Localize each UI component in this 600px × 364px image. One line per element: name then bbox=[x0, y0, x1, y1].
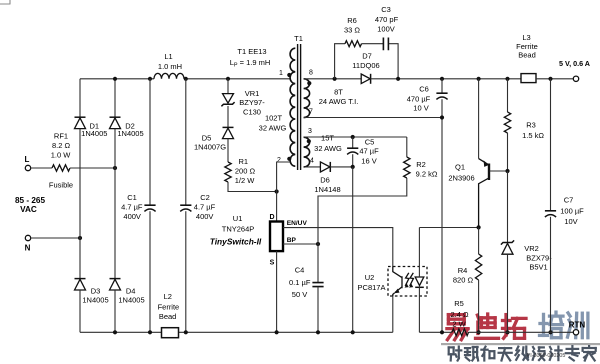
svg-text:4.7 µF: 4.7 µF bbox=[121, 203, 143, 212]
watermark logo char 2 (red) bbox=[476, 314, 499, 338]
wire VR1 to D5 bbox=[227, 106, 229, 127]
junction bottom rail / D4 bbox=[113, 330, 117, 334]
wire C5 lower stub bbox=[352, 154, 354, 167]
wire D7 to output rail bbox=[371, 78, 521, 80]
svg-text:3: 3 bbox=[308, 128, 312, 135]
svg-text:100V: 100V bbox=[377, 25, 395, 34]
junction bottom rail / U1 source bbox=[275, 330, 279, 334]
svg-text:2: 2 bbox=[277, 157, 281, 164]
junction RTN rail / C6 bbox=[440, 330, 444, 334]
wire C6 to RTN rail bbox=[441, 99, 443, 332]
wire top rail (bridge to transformer) bbox=[80, 78, 290, 80]
IC U1 TNY264P box bbox=[270, 222, 283, 252]
ferrite bead L3 bbox=[521, 74, 536, 83]
junction C6 top rail bbox=[440, 77, 444, 81]
wire R1 to drain node bbox=[228, 182, 277, 192]
watermark slogan char 2 (gray) bbox=[465, 347, 478, 361]
capacitor C7 100uF 10V bbox=[545, 210, 556, 212]
figure corner mark (top-left) bbox=[0, 0, 11, 4]
svg-text:R3: R3 bbox=[526, 120, 536, 129]
wire Q1 emitter bbox=[478, 79, 480, 159]
capacitor C3 470pF bbox=[383, 38, 388, 51]
diode D1 1N4005 bbox=[75, 116, 86, 118]
junction bottom rail / C1 bbox=[148, 330, 152, 334]
wire N terminal to bridge bbox=[31, 237, 80, 239]
resistor R2 9.2k with return to BP bbox=[406, 137, 408, 157]
wire LED cathode to RTN rail bbox=[418, 287, 420, 332]
svg-text:C1: C1 bbox=[127, 193, 137, 202]
wire base node to VR2 bbox=[507, 171, 509, 242]
svg-text:16 V: 16 V bbox=[361, 156, 376, 165]
wire C2 lower bbox=[185, 211, 187, 332]
svg-text:PI-3059-060205: PI-3059-060205 bbox=[527, 353, 566, 359]
junction top rail / D2 bbox=[113, 77, 117, 81]
svg-text:S: S bbox=[270, 260, 275, 267]
svg-text:BP: BP bbox=[287, 237, 297, 244]
zener VR2 BZX79-B5V1 bbox=[501, 240, 514, 244]
junction output rail / R3 bbox=[505, 77, 509, 81]
watermark slogan char 5 (gray) bbox=[515, 347, 528, 360]
inductor L1 bbox=[154, 73, 184, 78]
diode D4 1N4005 bbox=[110, 278, 121, 280]
svg-text:D6: D6 bbox=[320, 176, 330, 185]
svg-text:T1 EE13: T1 EE13 bbox=[237, 47, 266, 56]
pin 1 phase dot bbox=[287, 73, 291, 77]
svg-text:L3: L3 bbox=[522, 33, 530, 42]
snubber loop wires bbox=[335, 44, 399, 79]
wire secondary RTN rail bbox=[419, 331, 576, 333]
svg-text:L1: L1 bbox=[164, 52, 172, 61]
svg-text:2N3906: 2N3906 bbox=[448, 173, 474, 182]
wire D5 to R1 bbox=[227, 139, 229, 162]
svg-text:C2: C2 bbox=[200, 193, 210, 202]
svg-text:PC817A: PC817A bbox=[358, 283, 386, 292]
wire opto emitter to bottom rail bbox=[392, 296, 394, 332]
wire L terminal to RF1 bbox=[31, 167, 52, 169]
watermark logo char 4 (blue) bbox=[540, 312, 564, 338]
capacitor C2 4.7uF 400V bbox=[180, 204, 191, 206]
opto LED diode bbox=[415, 277, 424, 286]
svg-text:1N4148: 1N4148 bbox=[314, 185, 340, 194]
diode D6 1N4148 bbox=[320, 162, 330, 172]
svg-text:1N4005: 1N4005 bbox=[118, 296, 144, 305]
svg-text:32 AWG: 32 AWG bbox=[259, 123, 287, 132]
svg-text:C5: C5 bbox=[365, 137, 375, 146]
svg-text:VAC: VAC bbox=[20, 205, 37, 214]
junction N-wire / D1 leg bbox=[78, 236, 82, 240]
junction drain node bbox=[275, 189, 279, 193]
svg-text:VR2: VR2 bbox=[524, 244, 539, 253]
junction VR2 bottom rail bbox=[505, 330, 509, 334]
resistor R6 33 ohm bbox=[345, 41, 362, 47]
terminal RTN (open circle) bbox=[573, 330, 578, 335]
wire node X to bottom rail bbox=[352, 167, 354, 332]
junction bottom rail / C2 bbox=[184, 330, 188, 334]
wire D6 to node X bbox=[330, 166, 352, 168]
svg-text:U1: U1 bbox=[233, 214, 243, 223]
svg-text:TNY264P: TNY264P bbox=[222, 225, 255, 234]
capacitor C5 47uF 16V bbox=[347, 147, 358, 149]
junction output rail / C7 bbox=[548, 77, 552, 81]
svg-text:33 Ω: 33 Ω bbox=[344, 26, 360, 35]
svg-text:R6: R6 bbox=[347, 16, 357, 25]
svg-text:1N4005: 1N4005 bbox=[82, 296, 108, 305]
svg-text:400V: 400V bbox=[196, 212, 214, 221]
resistor R1 200 ohm bbox=[225, 162, 231, 182]
svg-text:1.0 W: 1.0 W bbox=[51, 151, 72, 160]
wire C2 upper bbox=[185, 79, 187, 205]
svg-text:D3: D3 bbox=[91, 286, 101, 295]
junction R4 bottom rail bbox=[477, 330, 481, 334]
transistor Q1 2N3906 bbox=[479, 159, 489, 165]
svg-text:C130: C130 bbox=[243, 108, 261, 117]
svg-text:4.7 µF: 4.7 µF bbox=[194, 203, 216, 212]
diode D2 1N4005 bbox=[110, 116, 121, 118]
wire BP pin bbox=[283, 243, 318, 245]
wire C4 to bottom rail bbox=[317, 287, 319, 333]
svg-text:0.1 µF: 0.1 µF bbox=[289, 278, 311, 287]
wire LED anode from feedback node bbox=[418, 228, 420, 278]
svg-text:8.2 Ω: 8.2 Ω bbox=[52, 141, 71, 150]
svg-text:RTN: RTN bbox=[569, 320, 586, 329]
svg-text:1N4007G: 1N4007G bbox=[194, 142, 226, 151]
wire drain to U1 bbox=[276, 192, 278, 222]
resistor R4 820 ohm bbox=[478, 227, 480, 254]
watermark slogan char 6 (gray) bbox=[533, 347, 545, 360]
terminal N (open circle) bbox=[25, 235, 30, 240]
watermark slogan char 9 (gray) bbox=[583, 346, 596, 360]
svg-text:1: 1 bbox=[279, 70, 283, 77]
wire C5 upper stub bbox=[352, 137, 354, 148]
junction snubber right bbox=[396, 77, 400, 81]
svg-text:C3: C3 bbox=[381, 5, 391, 14]
svg-text:8: 8 bbox=[309, 70, 313, 77]
wire VR2 to RTN rail bbox=[507, 254, 509, 332]
svg-text:C6: C6 bbox=[419, 85, 429, 94]
svg-text:1.5 kΩ: 1.5 kΩ bbox=[522, 131, 544, 140]
svg-text:10V: 10V bbox=[564, 217, 577, 226]
transformer T1 core bbox=[298, 44, 301, 170]
diode D3 1N4005 bbox=[75, 278, 86, 280]
svg-text:85 - 265: 85 - 265 bbox=[15, 196, 45, 205]
svg-text:102T: 102T bbox=[265, 114, 283, 123]
wire C7 upper bbox=[550, 79, 552, 211]
svg-text:L: L bbox=[25, 155, 30, 164]
wire RF1 to bridge bbox=[70, 167, 115, 169]
svg-text:10 V: 10 V bbox=[413, 104, 428, 113]
svg-text:VR1: VR1 bbox=[245, 89, 260, 98]
svg-text:D7: D7 bbox=[362, 52, 372, 61]
junction L-wire / D2 leg bbox=[113, 166, 117, 170]
svg-text:R2: R2 bbox=[416, 160, 426, 169]
transformer secondary winding (output) bbox=[304, 79, 310, 118]
svg-text:BZY97-: BZY97- bbox=[239, 98, 265, 107]
junction top rail / C1 bbox=[148, 77, 152, 81]
svg-text:EN/UV: EN/UV bbox=[287, 220, 308, 227]
watermark underline bar bbox=[441, 343, 600, 345]
watermark slogan char 1 (gray) bbox=[449, 347, 462, 361]
terminal L (open circle) bbox=[25, 165, 30, 170]
svg-text:R4: R4 bbox=[458, 266, 468, 275]
svg-text:RF1: RF1 bbox=[54, 132, 68, 141]
svg-text:L2: L2 bbox=[164, 292, 172, 301]
wire primary bottom rail bbox=[80, 331, 393, 333]
wire D2 leg upper bbox=[114, 79, 116, 117]
junction Q1 collector node bbox=[477, 225, 481, 229]
wire pin7 to C6 bbox=[304, 117, 442, 119]
junction C7 bottom rail bbox=[548, 330, 552, 334]
svg-text:B5V1: B5V1 bbox=[529, 262, 547, 271]
junction node X bbox=[351, 165, 355, 169]
svg-text:C7: C7 bbox=[564, 195, 574, 204]
watermark logo char 1 (red) bbox=[447, 315, 468, 340]
wire clamp upper bbox=[227, 79, 229, 94]
wire D1 leg upper bbox=[79, 79, 81, 117]
opto phototransistor bbox=[393, 267, 402, 293]
diode D7 11DQ06 bbox=[361, 74, 370, 84]
capacitor C1 4.7uF 400V bbox=[144, 204, 155, 206]
pin 3 phase dot bbox=[307, 139, 311, 143]
svg-text:1.0 mH: 1.0 mH bbox=[158, 62, 182, 71]
junction top rail / clamp bbox=[226, 77, 230, 81]
svg-text:U2: U2 bbox=[365, 273, 375, 282]
wire D4 to bottom rail bbox=[114, 290, 116, 332]
zener VR1 BZY97-C130 bbox=[223, 94, 234, 104]
svg-text:8T: 8T bbox=[334, 88, 343, 97]
svg-text:BZX79-: BZX79- bbox=[526, 253, 552, 262]
pin 8 phase dot bbox=[307, 81, 311, 85]
svg-text:32 AWG: 32 AWG bbox=[314, 144, 342, 153]
svg-text:D4: D4 bbox=[126, 286, 136, 295]
svg-text:N: N bbox=[25, 244, 31, 253]
wire pin3 rail bbox=[304, 136, 407, 138]
transformer primary winding bbox=[290, 48, 295, 166]
svg-text:470 µF: 470 µF bbox=[407, 95, 431, 104]
svg-text:11DQ06: 11DQ06 bbox=[352, 61, 379, 70]
watermark slogan char 3 (gray) bbox=[481, 347, 494, 361]
wire pin8 rail to D7 bbox=[304, 78, 361, 80]
svg-text:1N4005: 1N4005 bbox=[81, 129, 107, 138]
junction output rail / Q1 emitter bbox=[477, 77, 481, 81]
svg-text:4: 4 bbox=[310, 158, 314, 165]
wire pin2 to drain bbox=[277, 162, 290, 192]
svg-text:Bead: Bead bbox=[518, 51, 536, 60]
resistor R3 1.5k bbox=[507, 79, 509, 112]
svg-text:2.4 Ω: 2.4 Ω bbox=[450, 310, 469, 319]
capacitor C4 0.1uF bbox=[312, 283, 323, 287]
svg-text:TinySwitch-II: TinySwitch-II bbox=[210, 237, 262, 247]
svg-text:15T: 15T bbox=[321, 134, 334, 143]
watermark slogan char 7 (gray) bbox=[550, 347, 562, 361]
wire C1 lower bbox=[149, 211, 151, 332]
junction pin3 / C5 bbox=[351, 135, 355, 139]
svg-text:C4: C4 bbox=[295, 266, 305, 275]
svg-text:470 pF: 470 pF bbox=[375, 15, 399, 24]
svg-text:Bead: Bead bbox=[159, 312, 177, 321]
resistor RF1 (fusible) bbox=[52, 165, 70, 171]
transformer bias winding 15T bbox=[304, 137, 310, 167]
junction snubber left bbox=[333, 77, 337, 81]
svg-text:R5: R5 bbox=[454, 299, 464, 308]
wire feedback node to Q1 collector bbox=[419, 227, 478, 229]
capacitor C6 470uF 10V bbox=[436, 92, 447, 94]
wire D2 to L junction to D4 bbox=[114, 129, 116, 279]
diode D5 1N4007G bbox=[223, 126, 234, 128]
junction C6 / pin7 bbox=[440, 115, 444, 119]
svg-text:1/2 W: 1/2 W bbox=[235, 176, 256, 185]
watermark slogan char 4 (gray) bbox=[499, 348, 512, 360]
junction bottom rail / C4 bbox=[316, 330, 320, 334]
svg-text:50 V: 50 V bbox=[292, 290, 307, 299]
svg-text:R1: R1 bbox=[239, 157, 249, 166]
svg-text:100 µF: 100 µF bbox=[560, 206, 584, 215]
resistor R5 2.4 ohm 2W bbox=[452, 329, 469, 336]
svg-text:Q1: Q1 bbox=[455, 163, 465, 172]
terminal output 5V (open circle) bbox=[573, 76, 578, 81]
wire C6 upper stub bbox=[441, 79, 443, 93]
pin 2 phase dot bbox=[287, 157, 291, 161]
svg-text:820 Ω: 820 Ω bbox=[453, 276, 474, 285]
watermark logo char 3 (red) bbox=[503, 315, 527, 339]
junction bottom rail / node X bbox=[351, 330, 355, 334]
svg-text:200 Ω: 200 Ω bbox=[235, 167, 256, 176]
svg-text:T1: T1 bbox=[294, 34, 303, 43]
svg-text:Ferrite: Ferrite bbox=[516, 42, 538, 51]
ferrite bead L2 bbox=[162, 328, 179, 338]
wire L3 to output terminal bbox=[536, 78, 576, 80]
svg-text:9.2 kΩ: 9.2 kΩ bbox=[416, 170, 438, 179]
wire S pin to bottom rail bbox=[276, 251, 278, 332]
wire BP down through C4 bbox=[317, 244, 319, 282]
wire C7 lower bbox=[550, 217, 552, 332]
svg-text:5 V, 0.6 A: 5 V, 0.6 A bbox=[559, 59, 590, 68]
svg-text:D: D bbox=[269, 214, 274, 221]
junction BP node bbox=[316, 242, 320, 246]
wire D1 to N junction to D3 bbox=[79, 129, 81, 279]
junction Q1 base node bbox=[505, 169, 509, 173]
wire D3 to bottom rail bbox=[79, 290, 81, 332]
svg-text:400V: 400V bbox=[123, 212, 141, 221]
junction top rail / C2 bbox=[184, 77, 188, 81]
opto LED arrows bbox=[405, 273, 409, 286]
wire pin4 to D6 bbox=[304, 166, 321, 168]
watermark slogan char 8 (gray) bbox=[566, 346, 579, 360]
wire EN/UV to optocoupler bbox=[283, 228, 393, 267]
svg-text:2 W: 2 W bbox=[452, 320, 466, 329]
svg-text:47 µF: 47 µF bbox=[359, 146, 379, 155]
svg-text:7: 7 bbox=[309, 109, 313, 116]
wire C1 upper bbox=[149, 79, 151, 205]
svg-text:Fusible: Fusible bbox=[49, 180, 73, 189]
svg-text:1N4005: 1N4005 bbox=[117, 129, 143, 138]
watermark logo char 5 (blue) bbox=[568, 313, 588, 338]
svg-text:24 AWG T.I.: 24 AWG T.I. bbox=[319, 97, 359, 106]
svg-text:Ferrite: Ferrite bbox=[158, 302, 180, 311]
optocoupler U2 dashed box bbox=[388, 267, 427, 297]
